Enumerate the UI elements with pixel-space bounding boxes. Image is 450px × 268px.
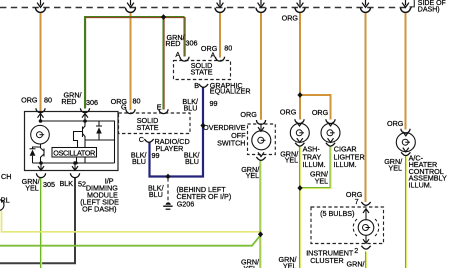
svg-text:DASH): DASH) — [418, 7, 440, 14]
svg-text:7: 7 — [355, 197, 359, 206]
svg-text:BLU: BLU — [185, 157, 199, 166]
svg-text:80: 80 — [224, 44, 232, 53]
svg-text:YEL: YEL — [243, 264, 257, 268]
svg-text:A: A — [175, 50, 180, 59]
svg-text:E: E — [157, 102, 162, 111]
svg-text:99: 99 — [152, 151, 160, 160]
svg-text:G206: G206 — [177, 200, 195, 209]
svg-text:YEL: YEL — [25, 183, 39, 192]
svg-text:2: 2 — [354, 246, 358, 255]
svg-text:BLK: BLK — [60, 179, 74, 188]
svg-text:OF DASH): OF DASH) — [82, 204, 116, 213]
svg-text:EQUALIZER: EQUALIZER — [210, 87, 251, 96]
svg-text:RL: RL — [1, 195, 10, 204]
svg-text:G: G — [121, 102, 127, 111]
svg-text:YEL: YEL — [388, 164, 402, 173]
svg-text:306: 306 — [86, 98, 98, 107]
svg-text:BLU: BLU — [149, 190, 163, 199]
svg-text:ORG: ORG — [282, 14, 299, 23]
svg-text:(5 BULBS): (5 BULBS) — [320, 209, 354, 218]
svg-text:ORG: ORG — [312, 108, 329, 117]
svg-text:STATE: STATE — [136, 123, 158, 132]
svg-text:YEL: YEL — [283, 262, 297, 268]
svg-text:GRN/: GRN/ — [347, 260, 365, 268]
svg-text:C: C — [139, 135, 144, 144]
svg-text:99: 99 — [210, 99, 218, 108]
svg-text:SWITCH: SWITCH — [217, 139, 245, 148]
svg-text:80: 80 — [44, 96, 52, 105]
svg-text:YEL: YEL — [285, 156, 299, 165]
svg-text:STATE: STATE — [190, 68, 212, 77]
svg-text:CLUSTER: CLUSTER — [310, 256, 344, 265]
svg-text:BLU: BLU — [184, 104, 198, 113]
svg-text:52: 52 — [78, 180, 86, 189]
svg-text:ILLUM.: ILLUM. — [334, 160, 357, 169]
svg-text:ORG: ORG — [280, 108, 297, 117]
svg-text:OSCILLATOR: OSCILLATOR — [53, 148, 95, 157]
svg-text:BLU: BLU — [132, 157, 146, 166]
svg-text:ORG: ORG — [387, 119, 404, 128]
svg-text:305: 305 — [43, 180, 55, 189]
svg-text:ILLUM.: ILLUM. — [409, 180, 432, 189]
svg-text:RED: RED — [165, 39, 180, 48]
svg-text:306: 306 — [186, 39, 198, 48]
svg-text:80: 80 — [133, 97, 141, 106]
svg-text:PLAYER: PLAYER — [156, 144, 184, 153]
svg-text:CH: CH — [1, 172, 11, 181]
svg-text:ORG: ORG — [240, 110, 257, 119]
svg-text:A: A — [211, 50, 216, 59]
svg-text:ORG: ORG — [21, 96, 38, 105]
svg-text:YEL: YEL — [246, 171, 260, 180]
svg-text:B: B — [194, 81, 199, 90]
svg-text:RED: RED — [61, 97, 76, 106]
svg-text:YEL: YEL — [315, 176, 329, 185]
svg-text:ILLUM.: ILLUM. — [303, 160, 326, 169]
